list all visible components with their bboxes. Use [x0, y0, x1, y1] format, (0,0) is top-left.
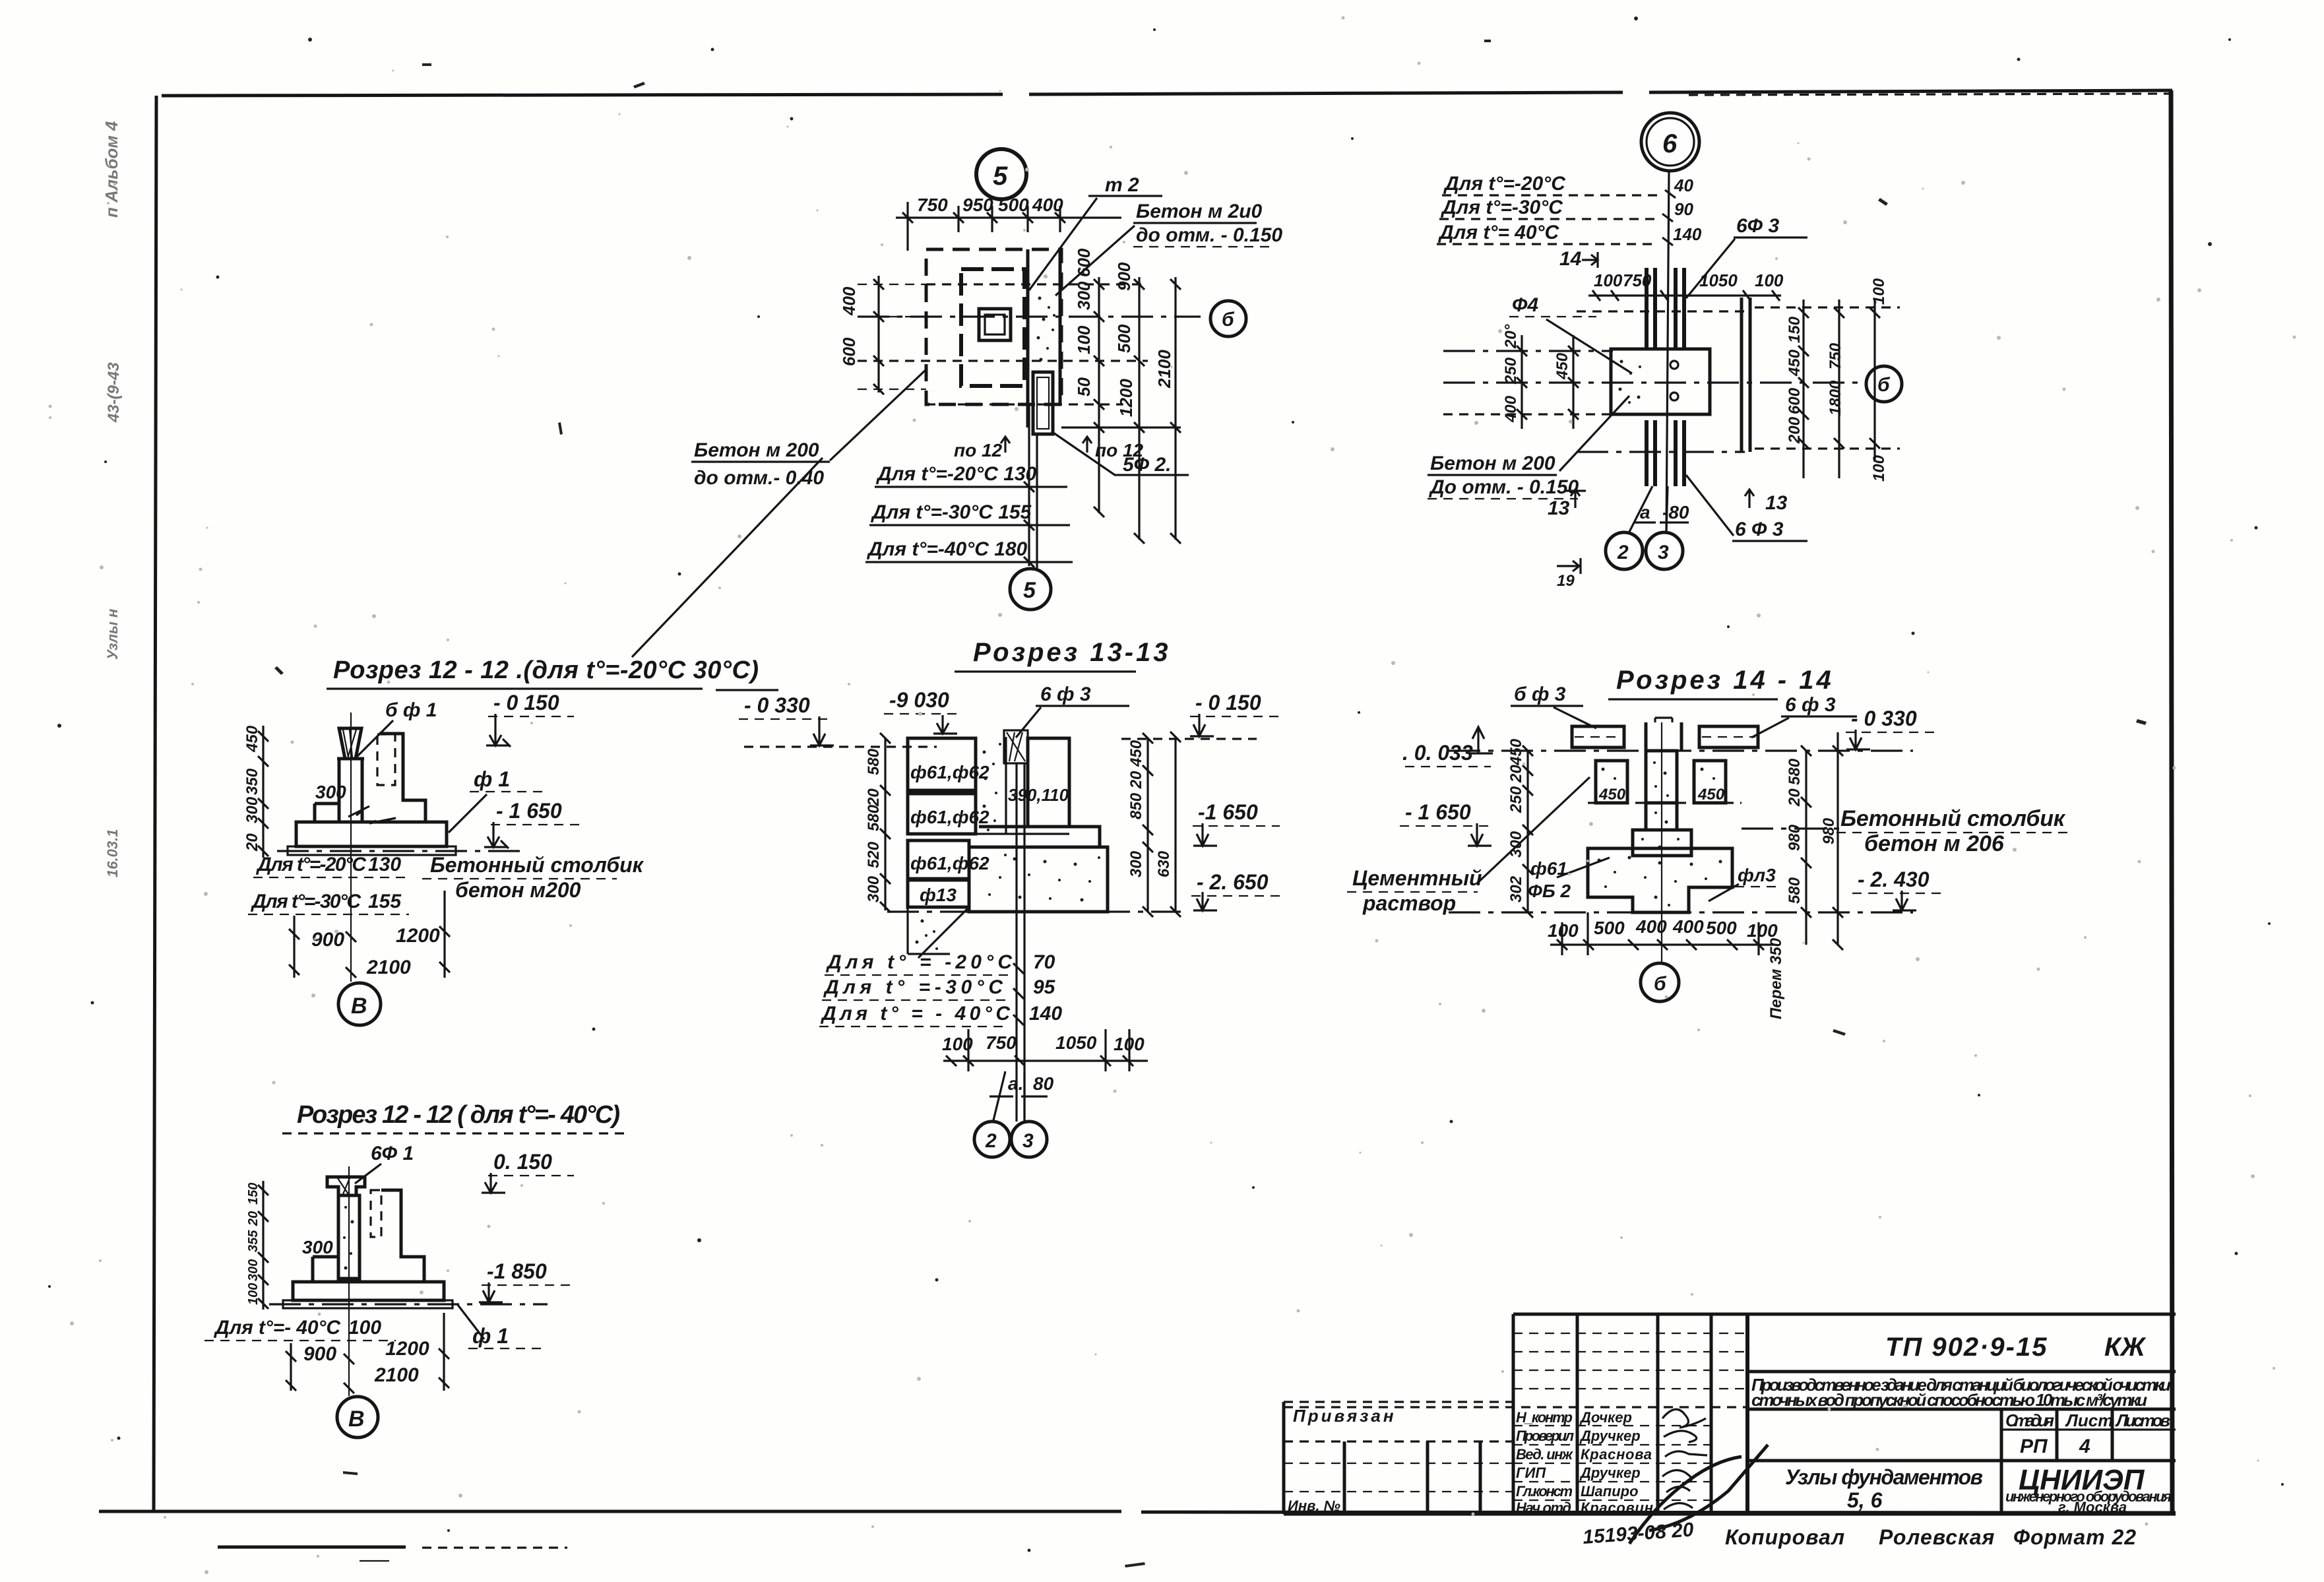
svg-text:3: 3 — [1022, 1130, 1034, 1152]
svg-text:95: 95 — [1033, 976, 1056, 998]
element 5Ф2 tall rect below — [1033, 372, 1053, 434]
svg-text:980: 980 — [1820, 817, 1838, 844]
svg-text:Бетон м 200: Бетон м 200 — [1430, 453, 1555, 474]
svg-text:300: 300 — [246, 1259, 261, 1281]
svg-text:100: 100 — [1074, 325, 1094, 354]
svg-text:ФБ 2: ФБ 2 — [1528, 881, 1571, 901]
svg-text:300: 300 — [1507, 831, 1525, 858]
svg-text:б: б — [1877, 374, 1891, 396]
svg-text:900: 900 — [1114, 262, 1134, 291]
svg-text:ф 1: ф 1 — [472, 1324, 509, 1348]
svg-text:950: 950 — [962, 195, 993, 215]
svg-text:Стадия: Стадия — [2005, 1410, 2054, 1430]
svg-text:20: 20 — [865, 788, 883, 807]
svg-text:500: 500 — [1114, 324, 1134, 353]
svg-text:В: В — [348, 1407, 365, 1432]
svg-text:Проверил: Проверил — [1516, 1428, 1574, 1444]
svg-text:Розрез 13-13: Розрез 13-13 — [973, 638, 1171, 667]
svg-text:Дочкер: Дочкер — [1579, 1409, 1632, 1426]
svg-text:Инв. №: Инв. № — [1288, 1498, 1340, 1514]
top border scan fuzz — [1689, 94, 2170, 95]
svg-text:Бетонный столбик: Бетонный столбик — [1840, 806, 2066, 831]
svg-text:КЖ: КЖ — [2104, 1333, 2147, 1362]
svg-text:Копировал: Копировал — [1725, 1525, 1845, 1549]
axis circles 2 and 3 — [1606, 532, 1643, 569]
svg-text:-1 650: -1 650 — [1198, 800, 1258, 824]
svg-text:Лист: Лист — [2065, 1410, 2113, 1430]
anchor funnel — [339, 728, 361, 759]
svg-text:500: 500 — [1706, 918, 1737, 938]
svg-text:Гл.конст: Гл.конст — [1516, 1483, 1573, 1500]
svg-text:бетон м200: бетон м200 — [455, 878, 581, 902]
svg-text:5, 6: 5, 6 — [1847, 1488, 1883, 1512]
svg-text:т 2: т 2 — [1105, 174, 1139, 196]
svg-text:300: 300 — [315, 782, 346, 802]
big dashed rectangle (footing outline) — [926, 249, 1061, 404]
svg-text:а.: а. — [1008, 1073, 1023, 1094]
leaders to circles — [993, 1071, 1024, 1120]
svg-text:450: 450 — [1554, 352, 1571, 380]
svg-text:300: 300 — [865, 875, 883, 902]
svg-text:6 ф 3: 6 ф 3 — [1040, 683, 1091, 705]
svg-text:100: 100 — [1870, 278, 1888, 305]
svg-text:140: 140 — [1029, 1003, 1062, 1025]
concrete strip with speckles — [1037, 297, 1056, 362]
svg-text:1200: 1200 — [385, 1338, 429, 1360]
svg-text:Дручкер: Дручкер — [1579, 1428, 1641, 1444]
middle small block — [1646, 803, 1677, 830]
right dim chains — [1806, 732, 1838, 945]
svg-text:бетон м 206: бетон м 206 — [1864, 831, 2005, 856]
svg-text:6 Ф 3: 6 Ф 3 — [1735, 519, 1784, 540]
svg-text:350: 350 — [243, 768, 261, 795]
axis circle б right — [1866, 366, 1902, 402]
axis circle б right — [1210, 301, 1246, 336]
horizontal axis (to circle б) — [858, 315, 1201, 317]
svg-text:500: 500 — [1594, 918, 1625, 938]
svg-text:580: 580 — [1786, 877, 1804, 904]
svg-text:155: 155 — [368, 891, 402, 912]
svg-text:Бетонный столбик: Бетонный столбик — [430, 853, 644, 877]
svg-text:-9 030: -9 030 — [889, 688, 949, 712]
centre column — [1646, 751, 1677, 803]
svg-text:б ф 3: б ф 3 — [1514, 683, 1566, 705]
svg-text:Н_контр: Н_контр — [1516, 1409, 1573, 1426]
left dim chain — [262, 1181, 264, 1310]
svg-text:- 1 650: - 1 650 — [496, 799, 562, 823]
dashed strip right of column — [377, 734, 395, 785]
central leader lines down to circle 5 — [1029, 404, 1037, 569]
svg-text:РП: РП — [2020, 1436, 2048, 1457]
svg-text:Привязан: Привязан — [1293, 1406, 1397, 1426]
svg-text:Для t°=-20°C: Для t°=-20°C — [255, 854, 367, 875]
right step profile — [379, 734, 425, 822]
leader to label 5Ф2 — [1052, 431, 1189, 475]
svg-text:2100: 2100 — [1154, 350, 1174, 389]
svg-text:400: 400 — [1672, 916, 1704, 937]
right dim chain — [1148, 737, 1176, 912]
svg-text:20: 20 — [1786, 788, 1804, 807]
svg-text:400: 400 — [1502, 395, 1520, 423]
svg-text:20: 20 — [1507, 765, 1525, 783]
svg-text:- 0 330: - 0 330 — [744, 693, 810, 717]
svg-text:- 2. 430: - 2. 430 — [1858, 868, 1930, 891]
svg-text:3: 3 — [1658, 542, 1669, 563]
right border — [2171, 90, 2172, 1514]
svg-text:20°: 20° — [1502, 324, 1520, 349]
svg-text:Бетон м 200: Бетон м 200 — [694, 439, 819, 461]
svg-text:580: 580 — [865, 804, 883, 831]
svg-text:В: В — [351, 994, 367, 1019]
svg-text:300: 300 — [302, 1237, 333, 1257]
ground dash-dot — [269, 1303, 548, 1305]
section marks 13 bottom — [1565, 490, 1586, 508]
svg-text:900: 900 — [311, 929, 344, 951]
svg-text:1200: 1200 — [1116, 379, 1136, 417]
svg-text:580: 580 — [865, 748, 883, 775]
svg-text:1050: 1050 — [1055, 1032, 1097, 1053]
svg-text:по 12: по 12 — [1095, 440, 1144, 460]
left pier — [1596, 761, 1627, 803]
svg-text:ф13: ф13 — [920, 885, 957, 905]
right dimension verticals — [1099, 277, 1176, 540]
top lintel blocks — [1572, 726, 1624, 747]
svg-text:600: 600 — [1074, 248, 1094, 277]
svg-text:302: 302 — [1507, 875, 1525, 902]
svg-text:500: 500 — [998, 195, 1029, 215]
svg-text:750: 750 — [1827, 342, 1844, 369]
ground dash-dot line — [277, 850, 528, 852]
long diagonal stray line lower left — [632, 458, 823, 657]
svg-text:520: 520 — [865, 841, 883, 868]
svg-text:0. 150: 0. 150 — [493, 1150, 552, 1174]
centre axis and circle б — [1661, 722, 1662, 962]
svg-text:- 2. 650: - 2. 650 — [1197, 870, 1269, 894]
svg-text:ф61,ф62: ф61,ф62 — [910, 853, 989, 873]
outer top line — [1513, 1313, 2176, 1316]
svg-text:Формат 22: Формат 22 — [2013, 1525, 2137, 1549]
svg-text:6 ф 3: 6 ф 3 — [1785, 694, 1836, 716]
svg-text:100: 100 — [348, 1317, 381, 1339]
svg-text:600: 600 — [1786, 387, 1804, 414]
axis circle 5 bottom — [1010, 569, 1051, 610]
svg-text:40: 40 — [1674, 175, 1693, 195]
svg-text:Вед. инж: Вед. инж — [1516, 1446, 1574, 1463]
anchor cap and funnel — [327, 1177, 365, 1195]
svg-text:630: 630 — [1155, 850, 1173, 877]
svg-text:100: 100 — [246, 1283, 261, 1305]
horizontal grid dashes — [858, 284, 1148, 404]
footing slab — [293, 1282, 444, 1300]
signature table dashed rows — [1513, 1333, 1747, 1389]
svg-text:43-(9-43: 43-(9-43 — [105, 362, 123, 423]
svg-text:1800: 1800 — [1827, 380, 1844, 416]
top wall bars — [1647, 268, 1684, 348]
svg-text:250: 250 — [1502, 357, 1520, 385]
signature table verticals — [1512, 1314, 1515, 1514]
svg-text:750: 750 — [917, 195, 948, 215]
centre lower block — [1633, 830, 1691, 856]
stage table — [2000, 1409, 2003, 1514]
svg-text:- 0 150: - 0 150 — [493, 691, 559, 714]
svg-text:ТП 902·9-15: ТП 902·9-15 — [1885, 1333, 2048, 1362]
svg-text:- 0 330: - 0 330 — [1851, 707, 1917, 730]
svg-text:Розрез 14 - 14: Розрез 14 - 14 — [1616, 666, 1834, 695]
svg-text:Узлы н: Узлы н — [104, 609, 121, 660]
axis circles 2 and 3 — [974, 1122, 1010, 1157]
svg-text:сточных вод пропускной способн: сточных вод пропускной способностью 10ты… — [1751, 1390, 2147, 1410]
svg-text:До отм. - 0.150: До отм. - 0.150 — [1428, 476, 1579, 498]
svg-text:а: а — [1640, 502, 1650, 522]
axis circle В — [337, 1397, 378, 1438]
lower-left speckled wedge — [908, 907, 969, 958]
svg-text:- 0 150: - 0 150 — [1195, 691, 1261, 714]
right pier — [1694, 761, 1726, 803]
stray line below bottom border — [218, 1546, 406, 1549]
svg-text:ГИП: ГИП — [1516, 1465, 1546, 1481]
svg-text:Для t° =-30°C: Для t° =-30°C — [823, 976, 1003, 998]
small double square (column) — [979, 309, 1011, 340]
svg-text:100: 100 — [1755, 270, 1784, 290]
svg-text:14: 14 — [1559, 248, 1582, 270]
svg-text:Для t°= 40°C: Для t°= 40°C — [1437, 222, 1560, 243]
svg-text:Перем 350: Перем 350 — [1767, 937, 1785, 1019]
main level dashed line — [1449, 749, 1913, 751]
svg-text:по 12: по 12 — [954, 440, 1003, 460]
small 19 mark — [1557, 558, 1581, 574]
inner heavy dashed rectangle — [961, 269, 1024, 386]
svg-text:450: 450 — [1507, 738, 1525, 766]
svg-text:200: 200 — [1786, 416, 1804, 444]
svg-text:400: 400 — [839, 286, 859, 316]
central axis vertical — [1666, 171, 1669, 532]
svg-text:400: 400 — [1032, 195, 1063, 215]
right block — [1028, 738, 1069, 827]
left dim ticks — [1522, 335, 1573, 429]
left dim chain — [1526, 751, 1528, 912]
svg-text:16.03.1: 16.03.1 — [104, 829, 121, 877]
svg-text:450: 450 — [1697, 786, 1725, 804]
svg-text:- 1 650: - 1 650 — [1405, 800, 1471, 824]
big footing — [1588, 848, 1732, 912]
svg-text:980: 980 — [1786, 824, 1804, 851]
svg-text:6Ф 1: 6Ф 1 — [371, 1143, 414, 1164]
right dimension chains — [1804, 300, 1875, 478]
central concrete strip — [976, 737, 1006, 834]
svg-text:Для t°=- 40°C: Для t°=- 40°C — [213, 1317, 341, 1339]
svg-text:19: 19 — [1557, 572, 1575, 590]
svg-text:300: 300 — [1127, 850, 1145, 877]
big autograph squiggle — [1629, 1445, 1768, 1544]
step slab — [979, 827, 1100, 847]
svg-text:раствор: раствор — [1362, 891, 1456, 915]
svg-text:-1 850: -1 850 — [487, 1259, 547, 1283]
centre column top verticals — [1646, 722, 1681, 751]
svg-text:580: 580 — [1786, 758, 1804, 785]
svg-text:450: 450 — [1786, 349, 1804, 377]
footing slab — [296, 822, 447, 846]
left margin faint rotated annotations — [102, 121, 123, 877]
axis circle В bottom — [338, 983, 381, 1025]
svg-text:2: 2 — [985, 1130, 997, 1152]
svg-text:Розрез 12 - 12 .(для t°=-20°C: Розрез 12 - 12 .(для t°=-20°C 30°C) — [333, 656, 759, 684]
svg-text:390,110: 390,110 — [1008, 785, 1069, 805]
central foundation block — [1611, 349, 1710, 414]
axis circle 5 top — [976, 149, 1026, 199]
svg-text:б ф 1: б ф 1 — [385, 699, 437, 721]
svg-text:Для t°=-30°C: Для t°=-30°C — [1440, 197, 1563, 218]
wall vertical lines — [1026, 249, 1030, 427]
svg-text:300: 300 — [243, 796, 261, 823]
svg-text:б: б — [1654, 973, 1667, 995]
svg-text:ф61,ф62: ф61,ф62 — [910, 762, 989, 782]
left border — [154, 96, 156, 1511]
svg-text:Для t°=-40°C 180: Для t°=-40°C 180 — [866, 538, 1028, 560]
right double wall verticals — [1742, 298, 1750, 452]
ground dash-dot — [887, 910, 1181, 912]
svg-text:5: 5 — [1023, 578, 1036, 603]
left dim chain — [884, 738, 886, 910]
narrow column with speckles — [338, 1195, 360, 1279]
svg-text:фл3: фл3 — [1738, 865, 1776, 885]
right step profile — [381, 1190, 424, 1282]
svg-text:Краснова: Краснова — [1581, 1446, 1652, 1463]
bottom border — [99, 1511, 2176, 1513]
dashed strip right — [371, 1190, 381, 1237]
svg-text:600: 600 — [839, 337, 859, 366]
svg-text:90: 90 — [1674, 199, 1693, 219]
top border — [162, 90, 2172, 96]
svg-text:150: 150 — [246, 1183, 261, 1205]
svg-text:300: 300 — [1074, 281, 1094, 310]
svg-text:450: 450 — [243, 725, 261, 753]
svg-text:450: 450 — [1598, 786, 1626, 804]
central axis — [350, 712, 352, 982]
svg-text:750: 750 — [986, 1032, 1017, 1053]
svg-text:. 0. 033: . 0. 033 — [1402, 741, 1473, 765]
svg-text:до отм. - 0.150: до отм. - 0.150 — [1136, 224, 1282, 246]
svg-text:20: 20 — [243, 833, 261, 852]
svg-text:13: 13 — [1765, 492, 1788, 514]
svg-text:100: 100 — [1870, 455, 1888, 482]
svg-text:140: 140 — [1673, 224, 1702, 244]
svg-text:5: 5 — [993, 162, 1008, 191]
signature squiggles — [1662, 1409, 1707, 1509]
svg-text:2100: 2100 — [366, 957, 411, 978]
svg-text:Ф4: Ф4 — [1512, 294, 1538, 316]
svg-text:Для t°=-20°C: Для t°=-20°C — [1443, 173, 1566, 195]
svg-text:355: 355 — [246, 1230, 261, 1252]
big footing — [969, 847, 1108, 912]
anchor vertical double lines — [1017, 763, 1024, 1122]
svg-text:1200: 1200 — [396, 925, 440, 947]
svg-text:13: 13 — [1548, 497, 1570, 519]
svg-text:Для t°=-30°C: Для t°=-30°C — [250, 891, 361, 912]
title block — [1284, 1314, 2176, 1549]
svg-text:70: 70 — [1033, 951, 1055, 973]
svg-text:450: 450 — [1127, 740, 1145, 767]
bottom line of block — [1284, 1513, 2176, 1516]
svg-text:850 20: 850 20 — [1127, 771, 1145, 819]
svg-text:4: 4 — [2079, 1436, 2090, 1457]
leaders to circles 2 3 — [1629, 486, 1668, 532]
svg-text:2100: 2100 — [374, 1364, 419, 1386]
svg-text:20: 20 — [246, 1211, 261, 1226]
svg-text:150: 150 — [1786, 316, 1804, 343]
ground dash-dot — [1449, 911, 1913, 913]
svg-text:Для t°=-20°C 130: Для t°=-20°C 130 — [875, 463, 1037, 485]
small arrows onto slab — [348, 806, 396, 823]
svg-text:Розрез 12 - 12 ( для t°=- 40°C: Розрез 12 - 12 ( для t°=- 40°C) — [297, 1101, 620, 1129]
central axis — [348, 1166, 350, 1396]
svg-text:6: 6 — [1662, 129, 1678, 158]
svg-text:Цементный: Цементный — [1352, 866, 1482, 890]
svg-text:250: 250 — [1507, 786, 1525, 813]
svg-text:100: 100 — [1747, 920, 1778, 941]
svg-text:п Альбом 4: п Альбом 4 — [102, 121, 121, 218]
svg-text:50: 50 — [1074, 377, 1094, 396]
svg-text:Бетон м 2и0: Бетон м 2и0 — [1136, 201, 1263, 222]
bottom wall bars — [1647, 420, 1684, 486]
svg-text:Для t°=-30°C 155: Для t°=-30°C 155 — [870, 501, 1032, 523]
top dimension line — [896, 216, 1121, 218]
svg-text:Узлы фундаментов: Узлы фундаментов — [1785, 1465, 1983, 1489]
svg-text:б: б — [1222, 309, 1235, 331]
svg-text:ф61,ф62: ф61,ф62 — [910, 807, 989, 827]
svg-text:80: 80 — [1033, 1073, 1054, 1094]
svg-text:130: 130 — [368, 854, 401, 875]
svg-text:ф 1: ф 1 — [474, 767, 510, 791]
left mini table — [1284, 1401, 1513, 1403]
svg-text:Ролевская: Ролевская — [1879, 1525, 1995, 1549]
strip footing dashed edges — [1577, 310, 1745, 312]
svg-text:100: 100 — [1594, 270, 1623, 290]
left step — [313, 1257, 338, 1282]
svg-text:Дручкер: Дручкер — [1579, 1465, 1641, 1481]
axis circle 6 top (double) — [1641, 113, 1699, 171]
column body — [339, 759, 362, 822]
svg-text:1050: 1050 — [1699, 270, 1738, 290]
left stack of blocks — [908, 738, 976, 790]
svg-text:900: 900 — [303, 1343, 336, 1365]
central anchor box — [1004, 730, 1028, 763]
left dim column — [877, 276, 879, 393]
svg-text:Листов: Листов — [2115, 1410, 2170, 1430]
left dim chain rotated labels — [262, 726, 264, 858]
horizontal dashes at pier base — [1588, 802, 1742, 804]
svg-text:6Ф 3: 6Ф 3 — [1736, 215, 1779, 237]
svg-text:Шапиро: Шапиро — [1581, 1483, 1639, 1500]
svg-text:2: 2 — [1617, 542, 1629, 563]
